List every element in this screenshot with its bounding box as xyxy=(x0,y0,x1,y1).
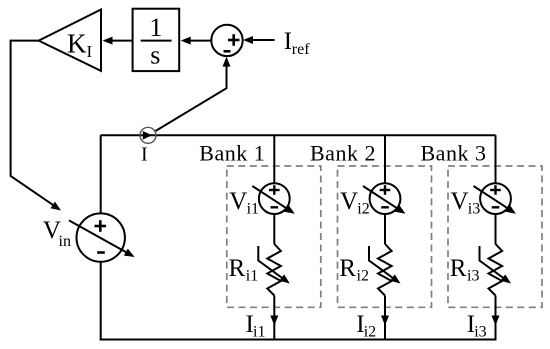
svg-text:i3: i3 xyxy=(474,324,486,341)
wire: feedback from current sensor up to summing junction (minus input) xyxy=(156,57,231,131)
label I_i1 xyxy=(246,311,266,341)
label R_i1 xyxy=(229,255,259,285)
dashed enclosure Bank 3 xyxy=(448,166,542,307)
wire/arrow: output current I_i3 to bottom bus xyxy=(492,296,500,340)
wire: left rail from bus down to V_in xyxy=(100,135,102,213)
dashed enclosure Bank 1 xyxy=(227,166,321,307)
svg-text:K: K xyxy=(67,29,87,59)
label R_i2 xyxy=(339,255,369,285)
gain block K_I (triangle) xyxy=(39,10,101,71)
source V_in (controlled voltage source) xyxy=(69,213,135,261)
svg-text:1: 1 xyxy=(149,13,162,42)
svg-text:i3: i3 xyxy=(468,200,480,217)
svg-text:Bank 3: Bank 3 xyxy=(421,141,487,166)
wire: bus tap down to V_i1 xyxy=(273,135,275,183)
wire: K_I output to left rail, down and arrow into V_in source xyxy=(11,41,61,211)
wire/arrow: I_ref input into summing junction xyxy=(243,36,275,44)
wire/arrow: integrator output to K_I xyxy=(103,37,133,45)
svg-text:R: R xyxy=(339,255,356,282)
wire: bus tap down to V_i2 xyxy=(384,135,386,183)
svg-text:I: I xyxy=(284,28,292,55)
svg-text:in: in xyxy=(59,233,71,250)
wire/arrow: summing junction to integrator xyxy=(181,37,212,45)
wire: V_in bottom to bottom bus xyxy=(100,262,102,341)
svg-text:R: R xyxy=(229,255,246,282)
resistor R_i3 (variable) xyxy=(480,244,512,296)
summing junction xyxy=(211,25,242,56)
resistor R_i1 (variable) xyxy=(258,244,290,296)
svg-text:V: V xyxy=(340,188,358,215)
resistor R_i2 (variable) xyxy=(369,244,401,296)
wire: bus tap down to V_i3 xyxy=(495,135,497,183)
integrator block 1/s xyxy=(133,9,180,71)
svg-text:Bank 2: Bank 2 xyxy=(310,141,376,166)
wire: bottom bus xyxy=(100,339,497,341)
svg-text:s: s xyxy=(150,41,160,70)
svg-text:i3: i3 xyxy=(467,268,479,285)
source V_i2 xyxy=(363,183,406,214)
svg-text:I: I xyxy=(141,143,148,165)
label V_i3 xyxy=(451,188,481,218)
wire/arrow: output current I_i2 to bottom bus xyxy=(381,296,389,340)
label R_i3 xyxy=(450,255,480,285)
label V_i1 xyxy=(229,188,259,218)
svg-text:R: R xyxy=(450,255,467,282)
svg-text:V: V xyxy=(451,188,469,215)
svg-text:i2: i2 xyxy=(357,268,369,285)
svg-text:V: V xyxy=(229,188,247,215)
svg-text:i2: i2 xyxy=(364,324,376,341)
svg-text:i1: i1 xyxy=(247,200,259,217)
wire: top bus xyxy=(101,134,496,136)
dashed enclosure Bank 2 xyxy=(338,166,432,307)
label I_ref xyxy=(284,28,311,58)
source V_i3 xyxy=(474,183,517,214)
label I_i3 xyxy=(467,311,487,341)
svg-text:I: I xyxy=(87,42,93,61)
current sensor node I xyxy=(140,127,156,143)
wire/arrow: output current I_i1 to bottom bus xyxy=(270,296,278,340)
label V_i2 xyxy=(340,188,370,218)
label V_in xyxy=(43,217,71,250)
source V_i1 xyxy=(252,183,294,214)
svg-text:i1: i1 xyxy=(246,268,258,285)
label I_i2 xyxy=(356,311,376,341)
wire: V_i3 to R_i3 xyxy=(495,214,497,244)
wire: V_i2 to R_i2 xyxy=(384,214,386,244)
svg-text:i2: i2 xyxy=(357,200,369,217)
svg-text:Bank 1: Bank 1 xyxy=(199,141,265,166)
svg-text:i1: i1 xyxy=(253,324,265,341)
wire: V_i1 to R_i1 xyxy=(273,214,275,244)
svg-text:ref: ref xyxy=(292,41,310,58)
